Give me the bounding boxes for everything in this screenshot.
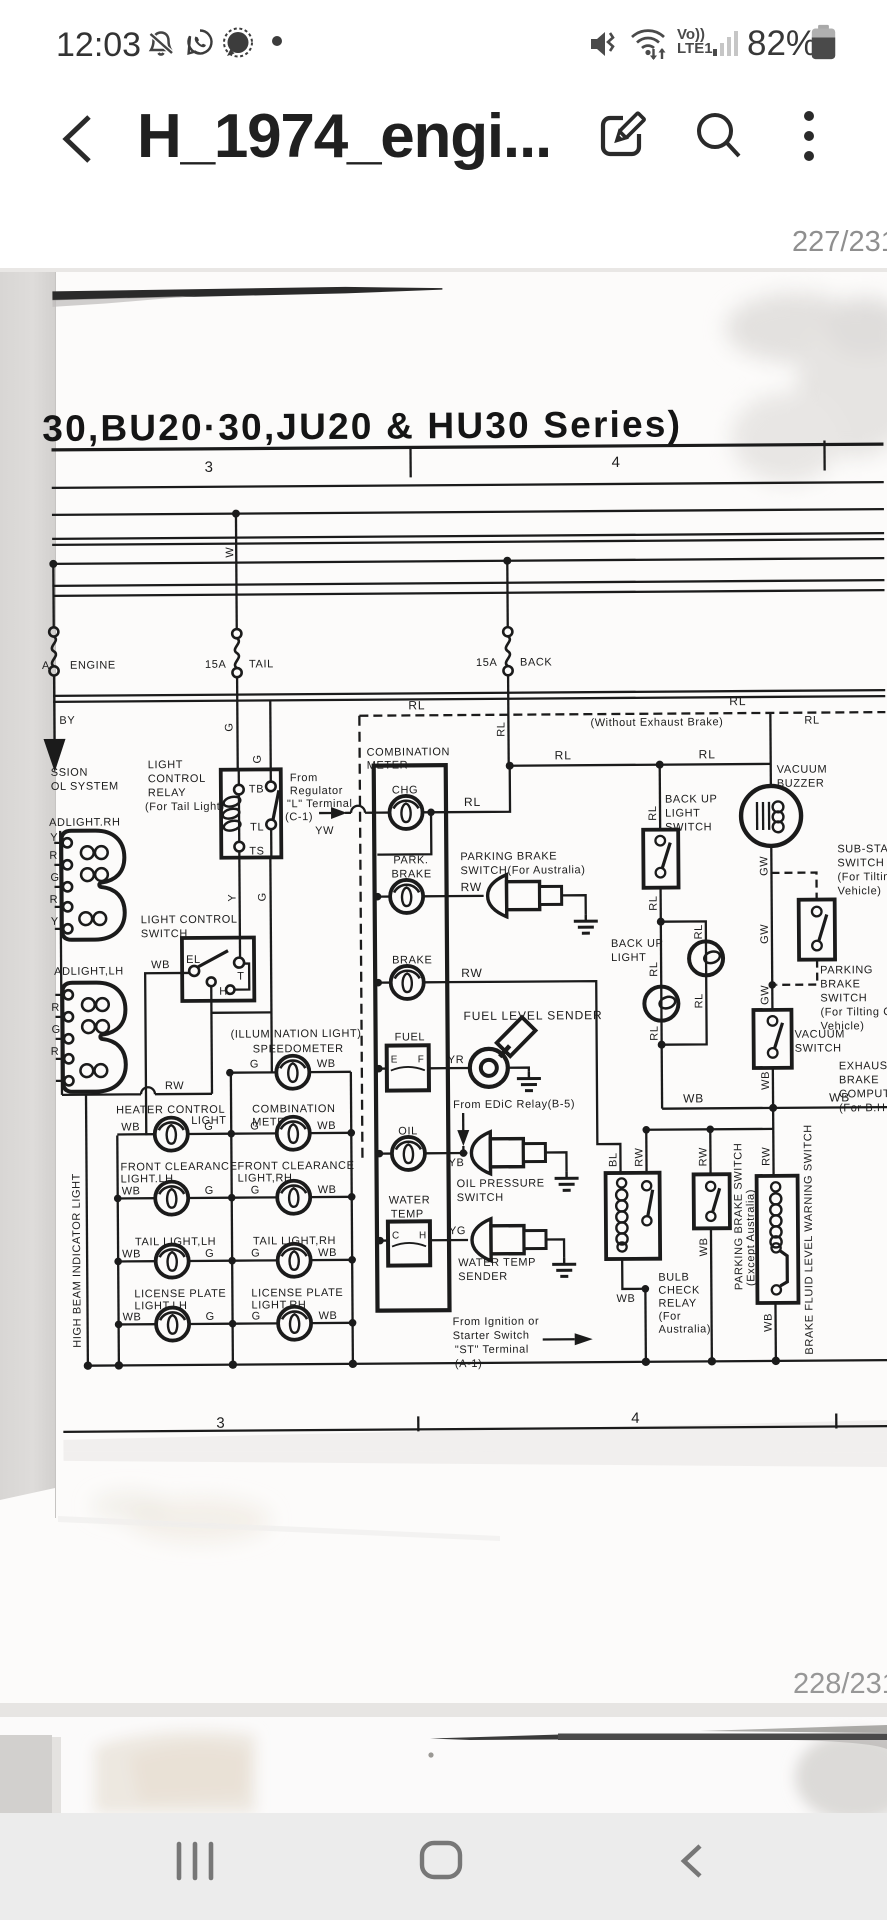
wire left edge bus <box>60 831 62 1095</box>
svg-text:G: G <box>52 1024 61 1036</box>
recents icon <box>175 1841 219 1881</box>
svg-text:SWITCH: SWITCH <box>820 992 867 1004</box>
lamp speedometer row <box>230 1055 351 1089</box>
svg-text:3: 3 <box>205 459 214 476</box>
label FRONT CLEARANCE LIGHT LH <box>120 1161 237 1186</box>
relay box light control <box>221 769 282 857</box>
svg-text:WB: WB <box>123 1311 142 1323</box>
label PARK BRAKE <box>391 854 431 880</box>
lamp combination meter grid row <box>231 1116 351 1150</box>
svg-text:WB: WB <box>319 1310 338 1322</box>
vacuum switch box <box>753 1010 791 1068</box>
headlight RH stubs <box>54 843 63 929</box>
headlight RH pin labels <box>49 832 60 928</box>
svg-text:BACK UP: BACK UP <box>611 938 664 950</box>
headlight LH stubs <box>55 995 64 1081</box>
wire G relay right drop <box>270 857 272 1072</box>
svg-text:ADLIGHT,LH: ADLIGHT,LH <box>54 965 124 977</box>
label BACK UP LIGHT SWITCH <box>665 793 718 833</box>
svg-text:G: G <box>205 1248 214 1260</box>
svg-text:RL: RL <box>693 924 705 939</box>
wire Y relay to switch <box>238 858 241 939</box>
arrow EDiC <box>457 1113 469 1153</box>
label transmission control system <box>51 766 119 792</box>
back chevron <box>58 113 98 165</box>
svg-text:WB: WB <box>760 1071 772 1090</box>
footer tick 2 <box>835 1413 837 1428</box>
node comb row right <box>347 1129 355 1137</box>
svg-text:RW: RW <box>461 966 483 980</box>
svg-text:VACUUM: VACUUM <box>777 764 828 776</box>
svg-text:SWITCH(For Australia): SWITCH(For Australia) <box>460 864 585 877</box>
svg-text:G: G <box>223 722 235 731</box>
svg-text:RL: RL <box>495 721 507 736</box>
whatsapp icon <box>184 26 216 58</box>
svg-text:G: G <box>251 1247 260 1259</box>
svg-text:CONTROL: CONTROL <box>148 773 206 785</box>
svg-text:RW: RW <box>697 1147 709 1166</box>
node RW mid <box>706 1126 714 1134</box>
svg-text:G: G <box>250 1120 259 1132</box>
wire engine below <box>53 675 55 703</box>
bus line 3 <box>52 533 884 539</box>
wire bulb check to bus <box>644 1289 647 1362</box>
svg-text:From: From <box>290 772 318 784</box>
svg-text:RL: RL <box>648 895 660 910</box>
node tail row right <box>348 1256 356 1264</box>
node bus grid right <box>349 1360 357 1368</box>
label OIL PRESSURE SWITCH <box>457 1177 545 1204</box>
svg-text:15A: 15A <box>205 659 227 671</box>
wire bulb2 down <box>661 975 706 1044</box>
label VACUUM SWITCH <box>795 1028 846 1054</box>
svg-text:G: G <box>251 1184 260 1196</box>
svg-text:WB: WB <box>616 1293 635 1305</box>
wire back drop <box>506 561 509 628</box>
svg-text:Vehicle): Vehicle) <box>838 885 882 897</box>
svg-text:From EDiC Relay(B-5): From EDiC Relay(B-5) <box>453 1098 575 1111</box>
grid tick 2 <box>823 441 826 471</box>
svg-text:COMBINATION: COMBINATION <box>367 746 450 759</box>
left gray scan margin <box>0 272 56 1520</box>
kebab menu <box>799 108 819 164</box>
signal bars <box>712 28 742 58</box>
svg-text:RW: RW <box>165 1080 184 1092</box>
gauge FUEL <box>378 1045 448 1090</box>
svg-text:(For Tail Light): (For Tail Light) <box>145 801 225 814</box>
node lic row mid <box>229 1320 237 1328</box>
svg-text:RL: RL <box>555 748 572 762</box>
svg-text:G: G <box>205 1185 214 1197</box>
node bulb check out <box>642 1285 650 1293</box>
svg-text:CHECK: CHECK <box>658 1284 700 1296</box>
svg-text:G: G <box>250 1058 259 1070</box>
svg-text:PARKING BRAKE SWITCH: PARKING BRAKE SWITCH <box>732 1143 745 1291</box>
bus line 8 <box>53 690 885 696</box>
svg-text:"L" Terminal: "L" Terminal <box>287 798 353 810</box>
svg-text:RW: RW <box>461 880 483 894</box>
lamp tail RH <box>232 1243 352 1277</box>
wire bottom bus <box>88 1360 887 1366</box>
fuse ENGINE <box>49 627 59 675</box>
wifi icon <box>629 26 667 62</box>
node fuel <box>375 1065 383 1073</box>
svg-text:C: C <box>392 1230 400 1241</box>
page counter 227 <box>0 195 887 268</box>
svg-text:RELAY: RELAY <box>148 787 186 799</box>
water temp sender plunger <box>472 1218 546 1261</box>
dashed wire sub-stand bottom <box>776 960 817 985</box>
svg-text:RL: RL <box>464 795 481 809</box>
fuse BACK 15A <box>503 627 513 675</box>
wire buzzer down <box>771 846 772 1010</box>
svg-text:Starter Switch: Starter Switch <box>453 1330 530 1343</box>
wire hop over dashed <box>351 806 365 813</box>
svg-text:RW: RW <box>760 1147 772 1166</box>
wire water sender to ground <box>546 1239 564 1257</box>
node bus bulbcheck <box>642 1358 650 1366</box>
svg-text:BACK UP: BACK UP <box>665 793 718 805</box>
wire WB from EL <box>145 973 190 1135</box>
parking brake switch AU plunger <box>487 874 561 917</box>
arrowhead YW <box>331 807 347 819</box>
lamp heater control row <box>117 1117 231 1151</box>
node sub-stand junction <box>768 981 776 989</box>
vacuum switch internals <box>768 1016 783 1058</box>
svg-text:SUB-STAl: SUB-STAl <box>837 843 887 855</box>
back icon <box>674 1843 708 1879</box>
svg-text:LICENSE PLATE: LICENSE PLATE <box>251 1287 343 1300</box>
label From Ignition <box>453 1316 540 1371</box>
svg-text:(C-1): (C-1) <box>285 811 313 823</box>
dashed wire to sub-stand switch <box>771 873 816 900</box>
node engine tap <box>49 560 57 568</box>
wire RW bus <box>646 1128 773 1131</box>
svg-text:WATER TEMP: WATER TEMP <box>458 1257 536 1270</box>
svg-text:WB: WB <box>698 1237 710 1256</box>
wire grid left vertical <box>117 1135 119 1365</box>
svg-text:PARKING BRAKE: PARKING BRAKE <box>460 850 557 863</box>
bottom-of-page shading <box>63 1420 887 1458</box>
svg-text:4: 4 <box>631 1410 640 1427</box>
lamp front clearance RH <box>232 1180 352 1214</box>
scan page top edge <box>52 286 442 300</box>
svg-text:RL: RL <box>693 993 705 1008</box>
node brake <box>374 979 382 987</box>
bus line 4 <box>52 539 884 545</box>
svg-text:YW: YW <box>315 825 334 837</box>
wire HO jog right <box>211 1011 271 1014</box>
svg-text:F: F <box>418 1054 425 1065</box>
wire bulb check out <box>622 1259 645 1289</box>
svg-text:EXHAUST: EXHAUST <box>839 1060 887 1072</box>
node lic row right <box>349 1319 357 1327</box>
fuse TAIL 15A <box>232 629 242 677</box>
mute-vibrate icon <box>588 27 624 61</box>
node back junction <box>506 762 514 770</box>
svg-text:R: R <box>51 1046 60 1058</box>
svg-text:"ST" Terminal: "ST" Terminal <box>455 1344 529 1357</box>
label LICENSE PLATE LIGHT LH <box>134 1288 226 1313</box>
ground oil switch <box>555 1171 579 1190</box>
svg-text:RELAY: RELAY <box>658 1297 696 1309</box>
parking brake except internals <box>706 1182 720 1221</box>
node bus parking <box>708 1357 716 1365</box>
node backup merge <box>658 1041 666 1049</box>
relay terminal labels <box>249 783 265 857</box>
lamp PARK BRAKE <box>377 880 447 913</box>
svg-text:PARKING: PARKING <box>820 964 873 976</box>
svg-text:LIGHT CONTROL: LIGHT CONTROL <box>141 914 238 927</box>
svg-text:E: E <box>391 1055 398 1066</box>
node park brake <box>374 893 382 901</box>
wire back below <box>507 675 510 766</box>
svg-text:SENDER: SENDER <box>458 1271 508 1283</box>
bus line 9 <box>53 696 885 702</box>
back up light bulb 1 <box>644 987 678 1021</box>
svg-text:TEMP: TEMP <box>391 1208 424 1220</box>
svg-text:SWITCH: SWITCH <box>457 1192 504 1204</box>
node fc row mid <box>228 1194 236 1202</box>
wire G to relay second <box>269 700 272 769</box>
ground water sender <box>552 1257 576 1276</box>
headlight LH <box>62 982 126 1091</box>
bell-off icon <box>143 25 179 61</box>
bus line 6 <box>52 580 884 586</box>
svg-text:COMBINATION: COMBINATION <box>252 1103 335 1116</box>
node tail row mid <box>228 1257 236 1265</box>
svg-text:OL SYSTEM: OL SYSTEM <box>51 780 119 792</box>
wire RL horizontal right <box>510 764 771 766</box>
Vo)) LTE1 <box>677 28 713 56</box>
label LICENSE PLATE LIGHT RH <box>251 1287 343 1312</box>
small dot <box>272 36 282 46</box>
svg-text:TAIL: TAIL <box>249 658 274 670</box>
svg-text:WB: WB <box>151 959 170 971</box>
brake fluid level warning switch box <box>757 1176 799 1303</box>
svg-text:BACK: BACK <box>520 656 553 668</box>
svg-text:RL: RL <box>804 715 819 727</box>
label COMBINATION METER grid <box>252 1103 336 1129</box>
arrow from ignition <box>543 1333 593 1345</box>
wire BY arrow stem <box>53 702 56 740</box>
svg-text:(ILLUMINATION LIGHT): (ILLUMINATION LIGHT) <box>231 1028 362 1041</box>
svg-text:Y: Y <box>51 916 59 928</box>
wire RW row <box>62 1087 212 1095</box>
svg-text:SWITCH: SWITCH <box>795 1042 842 1054</box>
label WATER TEMP <box>389 1194 431 1220</box>
wire backup switch bottom <box>659 888 662 922</box>
svg-text:FRONT CLEARANCE: FRONT CLEARANCE <box>237 1160 354 1173</box>
node lic row left <box>115 1321 123 1329</box>
bus line 7 <box>53 590 885 596</box>
label BACK UP LIGHT <box>611 938 664 964</box>
grid tick 1 <box>409 447 412 477</box>
wire grid mid vertical <box>231 1073 233 1365</box>
ground park switch <box>574 914 598 933</box>
node CHG RL <box>427 808 435 816</box>
wire engine drop <box>52 564 55 628</box>
dashed combination meter border <box>359 716 362 1164</box>
wire RW brake long <box>447 981 620 1174</box>
label EXHAUST BRAKE COMPUTER <box>839 1060 887 1114</box>
label VACUUM BUZZER <box>777 764 828 790</box>
dashed RL bus <box>359 712 885 716</box>
gauge WATER TEMP <box>379 1221 449 1265</box>
wire YB <box>448 1152 467 1154</box>
battery icon <box>810 22 837 62</box>
svg-text:WB: WB <box>317 1058 336 1070</box>
svg-text:WATER: WATER <box>389 1194 431 1206</box>
svg-text:G: G <box>206 1311 215 1323</box>
svg-text:Regulator: Regulator <box>290 785 343 797</box>
sub-stand switch box <box>799 899 835 959</box>
svg-text:(Without Exhaust Brake): (Without Exhaust Brake) <box>590 716 723 729</box>
svg-text:LIGHT: LIGHT <box>611 952 646 964</box>
wire parking except to bus <box>710 1228 713 1361</box>
node backup tap <box>656 761 664 769</box>
svg-text:4: 4 <box>612 454 621 471</box>
switch box light control <box>182 938 254 1002</box>
svg-text:BY: BY <box>59 715 75 727</box>
headlight LH pin labels <box>50 1002 61 1058</box>
svg-text:Australia): Australia) <box>659 1323 712 1335</box>
node tail tap <box>232 510 240 518</box>
search icon <box>694 110 744 162</box>
parking brake switch except-AU box <box>694 1174 730 1228</box>
svg-text:BRAKE: BRAKE <box>391 868 431 880</box>
svg-text:TB: TB <box>249 783 264 795</box>
wire RW park <box>447 895 484 898</box>
wire vacuum switch bottom <box>772 1068 775 1176</box>
svg-text:WB: WB <box>122 1185 141 1197</box>
label COMBINATION METER <box>367 746 451 772</box>
svg-text:BRAKE: BRAKE <box>820 978 860 990</box>
svg-text:WB: WB <box>122 1248 141 1260</box>
svg-text:GW: GW <box>758 856 770 876</box>
svg-text:WB: WB <box>318 1247 337 1259</box>
footer tick 1 <box>417 1416 419 1431</box>
svg-text:BL: BL <box>607 1152 619 1167</box>
svg-text:VACUUM: VACUUM <box>795 1028 846 1040</box>
scan corner mark top right <box>790 250 814 253</box>
svg-text:RL: RL <box>648 961 660 976</box>
svg-text:LIGHT: LIGHT <box>148 759 183 771</box>
sub-stand switch internals <box>812 907 827 951</box>
node water temp <box>376 1237 384 1245</box>
svg-text:ENGINE: ENGINE <box>70 659 116 671</box>
bulb check relay box <box>606 1173 661 1259</box>
svg-text:LICENSE PLATE: LICENSE PLATE <box>134 1288 226 1301</box>
node heater row <box>227 1130 235 1138</box>
label WATER TEMP SENDER <box>458 1257 536 1284</box>
svg-text:(For Tilting C: (For Tilting C <box>820 1006 887 1018</box>
bus line 1 <box>52 482 884 488</box>
wire from HO down <box>210 987 213 1094</box>
svg-text:BRAKE FLUID LEVEL WARNING SWIT: BRAKE FLUID LEVEL WARNING SWITCH <box>802 1124 816 1355</box>
lamp license RH <box>232 1306 352 1340</box>
signal app icon <box>221 26 255 60</box>
svg-text:PARK.: PARK. <box>393 854 428 866</box>
svg-text:FRONT CLEARANCE: FRONT CLEARANCE <box>120 1161 237 1174</box>
node bus grid mid <box>229 1360 237 1368</box>
svg-text:WB: WB <box>683 1091 704 1105</box>
svg-text:TS: TS <box>249 845 264 857</box>
svg-text:SSION: SSION <box>51 767 88 779</box>
svg-text:FUEL: FUEL <box>395 1031 426 1043</box>
svg-text:30,BU20·30,JU20 & HU30 Series): 30,BU20·30,JU20 & HU30 Series) <box>42 404 682 449</box>
svg-text:ADLIGHT.RH: ADLIGHT.RH <box>49 816 120 828</box>
label SUB-STAND SWITCH <box>837 843 887 897</box>
svg-text:15A: 15A <box>476 657 498 669</box>
svg-text:GW: GW <box>759 985 771 1005</box>
svg-text:R: R <box>49 850 58 862</box>
wire bulb1 top <box>660 922 663 987</box>
lamp tail LH <box>118 1244 232 1278</box>
node bus hb <box>84 1361 92 1369</box>
wire backup branch <box>661 921 706 941</box>
svg-text:SWITCH: SWITCH <box>837 857 884 869</box>
label From Regulator <box>285 772 353 823</box>
headlight RH <box>61 830 125 939</box>
label PARKING BRAKE SWITCH tilting <box>820 964 887 1032</box>
bottom of page full-width white <box>0 1518 887 1703</box>
svg-text:RW: RW <box>633 1147 645 1166</box>
svg-text:3: 3 <box>216 1415 225 1432</box>
svg-text:RL: RL <box>699 747 716 761</box>
svg-text:RL: RL <box>647 805 659 820</box>
wire brake fluid to bus <box>774 1303 777 1361</box>
node WB vacuum junction <box>769 1104 777 1112</box>
node fc row right <box>348 1193 356 1201</box>
switch internals <box>189 938 249 995</box>
svg-text:(For: (For <box>659 1311 682 1323</box>
wire bulb1 down <box>660 1021 663 1109</box>
node EDiC <box>460 1149 468 1157</box>
node RW left <box>642 1126 650 1134</box>
svg-text:WB: WB <box>318 1184 337 1196</box>
wire backup switch top <box>659 765 662 830</box>
label FRONT CLEARANCE LIGHT RH <box>237 1160 354 1185</box>
svg-text:A: A <box>42 660 50 672</box>
bus line 5 <box>52 558 884 564</box>
relay internals <box>221 769 279 857</box>
oil pressure switch plunger <box>471 1131 545 1174</box>
vacuum buzzer <box>741 786 801 846</box>
wire tail below <box>236 677 239 770</box>
svg-text:YG: YG <box>449 1225 466 1237</box>
label HEATER CONTROL LIGHT <box>116 1104 227 1128</box>
bus line 2 <box>52 509 884 515</box>
lamp front clearance LH <box>118 1181 232 1215</box>
node tail row left <box>114 1258 122 1266</box>
wire grid right vertical <box>351 1072 353 1364</box>
label BULB CHECK RELAY <box>658 1271 711 1335</box>
edit icon <box>596 109 648 161</box>
wire oil switch to ground <box>545 1152 566 1171</box>
wire tail drop <box>235 514 238 630</box>
lamp CHG <box>376 796 446 829</box>
svg-text:H: H <box>419 1230 427 1241</box>
svg-text:RL: RL <box>408 698 425 712</box>
wire RL to back fuse <box>446 766 510 812</box>
page counter 228 <box>793 1668 887 1701</box>
svg-text:R: R <box>50 894 59 906</box>
svg-text:TL: TL <box>250 821 264 833</box>
svg-text:WB: WB <box>121 1121 140 1133</box>
node bus brakefluid <box>772 1357 780 1365</box>
wire WB bus <box>662 1107 887 1109</box>
